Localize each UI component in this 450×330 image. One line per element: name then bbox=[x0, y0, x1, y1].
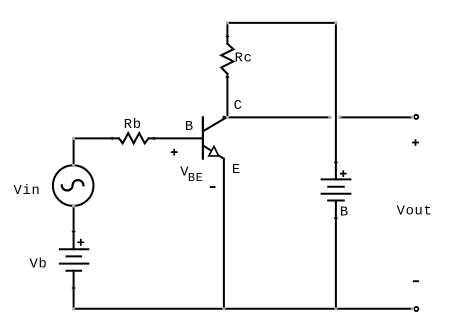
svg-text:E: E bbox=[232, 163, 241, 178]
svg-text:Vout: Vout bbox=[397, 205, 433, 220]
svg-text:BE: BE bbox=[188, 171, 203, 185]
svg-text:B: B bbox=[340, 206, 349, 221]
svg-text:Vin: Vin bbox=[14, 183, 41, 199]
svg-text:Rb: Rb bbox=[124, 117, 142, 133]
svg-text:C: C bbox=[234, 99, 243, 114]
svg-text:B: B bbox=[185, 120, 194, 135]
svg-text:Vb: Vb bbox=[30, 257, 48, 273]
svg-text:Rc: Rc bbox=[235, 52, 253, 67]
